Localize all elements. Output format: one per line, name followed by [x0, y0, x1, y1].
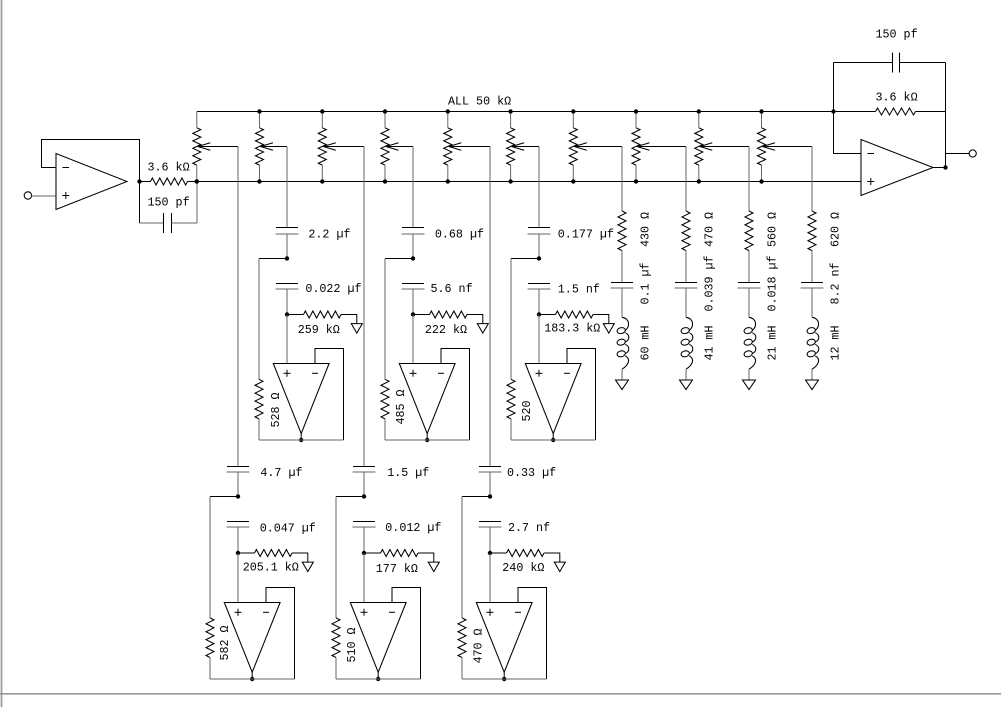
svg-text:560 Ω: 560 Ω [766, 212, 780, 247]
wire cap joint B1 [237, 472, 239, 497]
potentiometer P9 50 k-ohm [695, 112, 749, 182]
junction P1 bottom bus [195, 179, 199, 183]
capacitor 2.7 nf band B3 [479, 522, 502, 528]
potentiometer P3 50 k-ohm [318, 112, 364, 182]
svg-text:4.7 µf: 4.7 µf [260, 466, 302, 480]
wire input to op-amp [32, 195, 56, 197]
wire left branch B3 [462, 496, 490, 498]
resistor 582 Ω band B1 [206, 618, 214, 679]
wire cap2 to node B2 [363, 527, 365, 553]
capacitor 0.1 µf band L1 [611, 283, 634, 289]
wire to op-amp B1 [237, 553, 239, 603]
ground band B3 [554, 562, 565, 572]
wire to output terminal [946, 153, 970, 155]
resistor 177 kΩ band B2 [364, 550, 434, 563]
svg-text:2.7 nf: 2.7 nf [508, 521, 550, 535]
junction B3 upper [488, 494, 492, 498]
junction M1 lower [285, 312, 289, 316]
resistor 485 Ω band M2 [381, 379, 389, 440]
wire top bus ALL 50 k [197, 111, 834, 113]
junction P6 top bus [508, 109, 512, 113]
wire left branch M1 [259, 258, 287, 260]
junction M3 upper [537, 256, 541, 260]
node op-amp output M1 [299, 438, 303, 442]
potentiometer P5 50 k-ohm [444, 112, 490, 182]
svg-text:259 kΩ: 259 kΩ [298, 323, 340, 337]
resistor 470 Ω band B3 [458, 618, 466, 679]
op-amp U2 output [861, 140, 933, 196]
op-amp band B3 [476, 603, 532, 673]
wire cap joint M3 [538, 234, 540, 259]
resistor 183.3 kΩ band M3 [539, 311, 609, 324]
node U2 output [943, 165, 947, 169]
svg-text:ALL 50 kΩ: ALL 50 kΩ [448, 95, 511, 109]
potentiometer P8 50 k-ohm [632, 112, 686, 182]
svg-text:240 kΩ: 240 kΩ [502, 561, 544, 575]
junction output feedback bus [831, 109, 835, 113]
junction P10 bottom bus [759, 179, 763, 183]
op-amp band B2 [350, 603, 406, 673]
wire op-amp feedback M1 [315, 349, 344, 441]
svg-text:620 Ω: 620 Ω [829, 212, 843, 247]
resistor 430 Ω band L1 [618, 211, 626, 251]
wire L3 c-l [748, 288, 750, 317]
svg-text:0.68 µf: 0.68 µf [435, 228, 484, 242]
svg-text:0.1 µf: 0.1 µf [639, 262, 653, 304]
wire L2 to ground [685, 369, 687, 380]
op-amp U1 input buffer [56, 154, 127, 210]
wire to op-amp M3 [538, 315, 540, 364]
node input bus junction [195, 179, 199, 183]
junction B3 lower [488, 551, 492, 555]
wire op-amp feedback M2 [441, 349, 470, 441]
svg-text:21 mH: 21 mH [766, 325, 780, 360]
svg-text:470 Ω: 470 Ω [472, 628, 486, 663]
ground band M2 [477, 324, 488, 334]
svg-text:150 pf: 150 pf [148, 196, 190, 210]
potentiometer P4 50 k-ohm [381, 112, 413, 182]
svg-text:470 Ω: 470 Ω [703, 212, 717, 247]
wire U2 output [933, 167, 946, 169]
junction P4 bottom bus [383, 179, 387, 183]
svg-text:12 mH: 12 mH [829, 325, 843, 360]
svg-text:150 pf: 150 pf [876, 28, 918, 42]
wire op-amp feedback B2 [392, 588, 421, 680]
resistor 510 Ω band B2 [332, 618, 340, 679]
junction P3 bottom bus [320, 179, 324, 183]
svg-text:1.5 nf: 1.5 nf [558, 283, 600, 297]
wire cap joint M2 [412, 234, 414, 259]
inductor 60 mH band L1 [616, 317, 628, 369]
wire P5 wiper drop [489, 147, 491, 467]
wire bottom B2 [336, 678, 421, 680]
wire bottom B3 [462, 678, 547, 680]
svg-text:60 mH: 60 mH [639, 325, 653, 360]
wire bottom M3 [511, 439, 596, 441]
potentiometer P6 50 k-ohm [507, 112, 539, 182]
wire cap joint B3 [489, 472, 491, 497]
capacitor 1.5 µf band B2 [353, 467, 376, 473]
junction P2 top bus [257, 109, 261, 113]
junction P7 top bus [571, 109, 575, 113]
wire P3 wiper drop [363, 147, 365, 467]
wire op-amp output B3 [503, 672, 505, 679]
junction P7 bottom bus [571, 179, 575, 183]
junction P8 top bus [634, 109, 638, 113]
wire cap2 to node M2 [412, 289, 414, 315]
node op-amp output B1 [250, 677, 254, 681]
potentiometer P1 50 k-ohm [193, 112, 238, 182]
capacitor 2.2 µf band M1 [276, 228, 299, 235]
wire op-amp feedback B3 [518, 588, 547, 680]
capacitor 1.5 nf band M3 [528, 284, 551, 290]
resistor 222 kΩ band M2 [413, 311, 483, 324]
wire to op-amp M1 [286, 315, 288, 364]
wire L1 c-l [621, 288, 623, 317]
wire main signal bus [197, 181, 861, 183]
wire bottom B1 [210, 678, 295, 680]
capacitor 8.2 nf band L4 [801, 283, 824, 289]
wire L4 r-c [811, 251, 813, 283]
wire P6 wiper drop [538, 147, 540, 228]
node op-amp output M2 [425, 438, 429, 442]
svg-text:0.33 µf: 0.33 µf [507, 466, 556, 480]
capacitor 150 pf output [834, 53, 946, 73]
svg-text:520: 520 [520, 400, 534, 421]
wire cap2 to node M1 [286, 289, 288, 315]
wire left branch B2 [336, 496, 364, 498]
wire to op-amp B3 [489, 553, 491, 603]
wire L4 to ground [811, 369, 813, 380]
potentiometer P10 50 k-ohm [758, 112, 813, 182]
inductor 41 mH band L2 [680, 317, 692, 369]
inductor 21 mH band L3 [743, 317, 755, 369]
wire cap2 to node B1 [237, 527, 239, 553]
ground band L4 [806, 380, 819, 390]
wire left branch M3 [511, 258, 539, 260]
svg-text:528 Ω: 528 Ω [269, 392, 283, 427]
resistor 528 Ω band M1 [255, 379, 263, 440]
svg-text:430 Ω: 430 Ω [639, 212, 653, 247]
wire P9 wiper drop [748, 147, 750, 212]
wire bottom M1 [259, 439, 344, 441]
ground band M3 [603, 324, 614, 334]
wire P4 wiper drop [412, 147, 414, 228]
wire bottom M2 [385, 439, 470, 441]
svg-text:177 kΩ: 177 kΩ [376, 562, 418, 576]
ground band M1 [351, 324, 362, 334]
svg-text:485 Ω: 485 Ω [394, 389, 408, 424]
output terminal [969, 150, 976, 157]
wire op-amp output M1 [300, 434, 302, 440]
op-amp band M1 [273, 364, 329, 434]
svg-text:183.3 kΩ: 183.3 kΩ [544, 322, 600, 336]
wire P2 wiper drop [286, 147, 288, 228]
resistor 205.1 kΩ band B1 [238, 550, 308, 563]
junction P6 bottom bus [508, 179, 512, 183]
resistor 3.6 k-ohm output [834, 108, 946, 115]
svg-text:222 kΩ: 222 kΩ [425, 323, 467, 337]
wire op-amp output M2 [426, 434, 428, 440]
wire L1 r-c [621, 251, 623, 283]
wire op-amp output M3 [552, 434, 554, 440]
junction P9 bottom bus [697, 179, 701, 183]
resistor 520 band M3 [507, 379, 515, 440]
wire cap joint B2 [363, 472, 365, 497]
junction P5 top bus [446, 109, 450, 113]
wire cap joint M1 [286, 234, 288, 259]
wire L2 r-c [685, 251, 687, 283]
svg-text:5.6 nf: 5.6 nf [431, 282, 473, 296]
capacitor 5.6 nf band M2 [402, 284, 425, 290]
junction B1 lower [236, 551, 240, 555]
ground band L2 [680, 380, 693, 390]
wire P10 wiper drop [811, 147, 813, 212]
wire left branch M2 [385, 258, 413, 260]
svg-text:205.1 kΩ: 205.1 kΩ [243, 561, 299, 575]
resistor 470 Ω band L2 [682, 211, 690, 251]
wire op-amp output B1 [251, 672, 253, 679]
wire P1 wiper drop [237, 147, 239, 467]
ground band L3 [743, 380, 756, 390]
svg-text:0.022 µf: 0.022 µf [305, 282, 361, 296]
junction M2 upper [411, 256, 415, 260]
node U1 output [137, 179, 141, 183]
svg-text:1.5 µf: 1.5 µf [387, 466, 429, 480]
svg-text:0.047 µf: 0.047 µf [260, 522, 316, 536]
capacitor 0.33 µf band B3 [479, 467, 502, 473]
capacitor 0.68 µf band M2 [402, 228, 425, 235]
svg-text:0.039 µf: 0.039 µf [703, 255, 717, 311]
svg-text:582 Ω: 582 Ω [218, 625, 232, 660]
junction B2 lower [362, 551, 366, 555]
junction B2 upper [362, 494, 366, 498]
inductor 12 mH band L4 [806, 317, 818, 369]
op-amp band M3 [525, 364, 581, 434]
ground band L1 [616, 380, 629, 390]
potentiometer P2 50 k-ohm [256, 112, 288, 182]
wire L4 c-l [811, 288, 813, 317]
wire op-amp feedback B1 [266, 588, 295, 680]
wire op-amp feedback M3 [567, 349, 596, 441]
resistor 3.6 k-ohm input [140, 178, 197, 185]
svg-text:510 Ω: 510 Ω [345, 627, 359, 662]
junction P3 top bus [320, 109, 324, 113]
capacitor 0.018 µf band L3 [738, 283, 761, 289]
wire L3 to ground [748, 369, 750, 380]
wire U1 feedback [42, 140, 140, 182]
wire left branch B1 [210, 496, 238, 498]
node op-amp output B2 [376, 677, 380, 681]
capacitor 4.7 µf band B1 [227, 467, 250, 473]
resistor 560 Ω band L3 [745, 211, 753, 251]
capacitor 0.039 µf band L2 [675, 283, 698, 289]
ground band B1 [302, 562, 313, 572]
resistor 259 kΩ band M1 [287, 311, 357, 324]
wire L2 c-l [685, 288, 687, 317]
ground band B2 [428, 562, 439, 572]
svg-text:41 mH: 41 mH [703, 325, 717, 360]
wire op-amp output B2 [377, 672, 379, 679]
svg-text:2.2 µf: 2.2 µf [308, 228, 350, 242]
capacitor 0.047 µf band B1 [227, 522, 250, 528]
junction P10 top bus [759, 109, 763, 113]
wire to op-amp B2 [363, 553, 365, 603]
capacitor 0.012 µf band B2 [353, 522, 376, 528]
node op-amp output B3 [502, 677, 506, 681]
junction M2 lower [411, 312, 415, 316]
node op-amp output M3 [551, 438, 555, 442]
wire cap2 to node B3 [489, 527, 491, 553]
junction B1 upper [236, 494, 240, 498]
junction P9 top bus [697, 109, 701, 113]
svg-text:0.012 µf: 0.012 µf [385, 521, 441, 535]
op-amp band M2 [399, 364, 455, 434]
capacitor 150 pf input [140, 182, 198, 234]
svg-text:0.018 µf: 0.018 µf [766, 255, 780, 311]
input terminal [24, 192, 31, 199]
capacitor 0.022 µf band M1 [276, 284, 299, 290]
wire P7 wiper drop [621, 147, 623, 212]
junction M3 lower [537, 312, 541, 316]
wire P8 wiper drop [685, 147, 687, 212]
capacitor 0.177 µf band M3 [528, 228, 551, 235]
svg-text:8.2 nf: 8.2 nf [829, 262, 843, 304]
junction P5 bottom bus [446, 179, 450, 183]
wire cap2 to node M3 [538, 289, 540, 315]
wire L3 r-c [748, 251, 750, 283]
wire output op-amp minus branch [834, 63, 862, 154]
resistor 620 Ω band L4 [808, 211, 816, 251]
junction M1 upper [285, 256, 289, 260]
svg-text:0.177 µf: 0.177 µf [558, 228, 614, 242]
wire output feedback right [945, 63, 947, 168]
wire L1 to ground [621, 369, 623, 380]
svg-text:3.6 kΩ: 3.6 kΩ [876, 91, 918, 105]
junction P8 bottom bus [634, 179, 638, 183]
svg-text:3.6 kΩ: 3.6 kΩ [148, 161, 190, 175]
wire to op-amp M2 [412, 315, 414, 364]
resistor 240 kΩ band B3 [490, 550, 560, 563]
junction P4 top bus [383, 109, 387, 113]
op-amp band B1 [224, 603, 280, 673]
potentiometer P7 50 k-ohm [569, 112, 622, 182]
junction P2 bottom bus [257, 179, 261, 183]
